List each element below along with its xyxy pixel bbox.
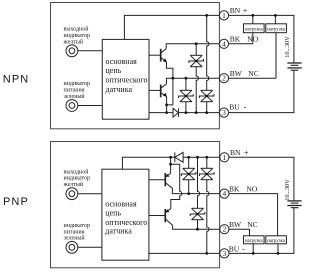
junction Z1 top on rail 4 [195,42,198,45]
terminal 6 [220,189,229,198]
junction Zb top on +rail [205,156,208,159]
svg-text:выходной: выходной [64,168,90,175]
wire Q2 emitter down [166,97,168,105]
svg-text:PNP: PNP [3,196,29,208]
wire Za bottom [188,180,190,194]
svg-text:1: 1 [222,11,226,20]
wire Q4 collector to rail 2 [173,225,220,229]
PNP sensor housing outline [51,142,220,268]
svg-text:нагрузка: нагрузка [245,28,264,33]
svg-text:нагрузка: нагрузка [267,28,286,33]
junction Z2 top on rail 2 [185,77,188,80]
svg-text:цепь: цепь [106,66,122,75]
wire Q3 base [149,179,165,181]
svg-text:цепь: цепь [105,209,121,218]
svg-text:зеленый: зеленый [64,93,86,100]
junction emitter bus on +rail [169,156,172,159]
wire load 3 to BU rail [252,244,254,254]
terminal 2 [219,74,228,83]
PNP transistor Q3 [165,173,172,188]
wire emitter bus to Q4 with hop over rail 4 [171,164,182,208]
svg-text:1: 1 [223,153,227,162]
wire load 2 to BW [275,33,277,78]
rail 3 from block [149,112,173,114]
label BU - PNP [229,244,245,253]
svg-text:нагрузка: нагрузка [245,239,264,244]
wire Za top [188,157,190,168]
wire Zb column with hops over rails 4 and 2 [207,180,209,254]
wire Q3 emitter [170,164,172,173]
wire Q1 base [149,54,161,56]
label BU - [229,103,247,112]
junction Z3 rail 3 [205,111,208,114]
svg-text:2: 2 [222,74,226,83]
zener Zb [200,168,215,179]
svg-text:датчика: датчика [106,85,133,94]
svg-text:NO: NO [247,184,258,193]
svg-text:BW: BW [229,220,242,229]
wire Q2 collector to rail 2 [167,78,173,84]
svg-text:+: + [243,7,248,16]
svg-text:индикатор: индикатор [64,33,91,39]
wire LED1 to block [78,50,103,52]
svg-text:желтый: желтый [63,38,84,45]
svg-text:основная: основная [106,57,138,66]
rail 2 to terminal 2 [173,77,220,79]
zener Z3 [199,90,214,101]
label BW NC [230,69,259,78]
battery B2 10...30V [287,201,301,208]
PNP power indicator label [64,223,91,242]
wire BK NO external [229,43,253,45]
wire block top to +rail [124,15,219,39]
wire LED4 to block [78,246,102,248]
svg-text:-: - [242,245,245,254]
junction Zc rail 2 [196,228,199,231]
battery B1 10...30V [287,63,301,70]
NPN power indicator label [64,81,91,100]
label BN + PNP [230,148,249,157]
label BN + [230,6,248,15]
svg-text:оптического: оптического [105,218,147,227]
svg-text:BU: BU [229,244,240,253]
wire block top to +rail PNP [122,157,174,169]
wire Q1 emitter jog down [167,62,173,78]
zener Z1 [189,55,204,66]
svg-text:3: 3 [222,108,226,117]
diode D1 in rail 3 [173,108,178,117]
wire Z2 bottom [185,102,187,113]
junction Za top on +rail [187,156,190,159]
wire load 1 to BK [252,33,254,44]
zener Zc [190,208,205,219]
svg-text:BW: BW [230,69,243,78]
label BK NO [230,35,259,44]
PNP transistor Q4 [165,209,172,226]
wire Q1 collector to rail 4 [166,44,219,49]
svg-text:оптического: оптического [106,76,148,85]
svg-text:основная: основная [105,199,137,208]
junction Z1 column rail 3 [195,111,198,114]
load resistor box 4 [266,236,287,244]
wire LED3 to block [78,193,102,195]
wire Q2 base [149,89,161,91]
load resistor box 1 [244,24,265,33]
svg-text:выходной: выходной [64,26,90,33]
svg-text:BU: BU [229,103,240,112]
svg-text:BN: BN [230,6,241,15]
terminal 1 [219,11,228,20]
wire Z3 column from +rail with hops [207,15,209,90]
NPN sensor housing outline [51,3,220,129]
label BK NO PNP [229,184,258,193]
svg-text:датчика: датчика [105,227,132,236]
wire Q4 base [149,215,165,217]
svg-text:NC: NC [248,69,258,78]
svg-text:питания: питания [64,229,85,235]
svg-text:3: 3 [223,249,227,258]
svg-text:нагрузка: нагрузка [267,239,286,244]
NPN transistor Q1 [161,49,167,63]
junction load 2 top [274,14,277,17]
NPN main sensor block U1 [102,39,149,119]
svg-text:индикатор: индикатор [64,223,91,229]
svg-text:10...30V: 10...30V [284,179,291,201]
wire BN+ external [229,15,294,63]
PNP main sensor block U2 [102,169,149,260]
svg-text:+: + [244,149,249,158]
NPN yellow LED indicator [66,45,78,57]
svg-text:-: - [244,103,247,112]
svg-text:NC: NC [247,220,257,229]
wire BK NO external PNP [229,194,278,236]
NPN transistor Q2 [161,84,167,97]
wire BW NC external [229,77,276,79]
svg-text:4: 4 [223,189,227,198]
terminal 4 [219,39,228,48]
load resistor box 3 [244,236,265,244]
wire battery to BU [229,70,294,112]
PNP green LED indicator [66,241,78,253]
svg-text:желтый: желтый [63,181,84,188]
NPN main block label [106,57,148,94]
zener Za [181,168,196,179]
rail 3 PNP [149,252,220,254]
PNP main block label [105,199,147,235]
junction Zc top on +rail [196,156,199,159]
junction Zb rail 3 [205,252,208,255]
svg-text:индикатор: индикатор [64,81,91,87]
svg-text:BK: BK [230,35,241,44]
zener Z2 [179,90,194,101]
terminal 8 [220,249,229,258]
wire LED2 to block [78,105,103,107]
wire to load 2 [274,15,276,23]
terminal 3 [219,108,228,117]
wire BN+ external PNP [229,157,294,201]
terminal 5 [220,153,229,162]
PNP output indicator label [63,168,91,188]
wire BW NC external PNP [229,229,250,236]
svg-text:4: 4 [222,39,226,48]
junction load 4 BU [277,252,280,255]
wire Zc column with hop over rail 4 [198,157,200,208]
svg-text:питания: питания [64,88,85,94]
svg-text:индикатор: индикатор [64,176,91,182]
junction load 1 top [251,14,254,17]
wire battery to BU rail PNP [229,208,294,254]
wire Z1 top [195,44,197,56]
wire Q3 collector to rail 4 [172,188,219,193]
wire Z1 bottom with hop over rail 2 [196,67,198,113]
junction Q1 emitter / rail 2 [172,77,175,80]
wire Z2 top [185,78,187,90]
junction Z2 rail 3 [185,111,188,114]
svg-text:зеленый: зеленый [64,235,86,242]
+rail diode to terminal 1 [183,156,220,158]
svg-text:NPN: NPN [3,74,30,86]
junction Za rail 4 [187,192,190,195]
svg-text:BN: BN [230,148,241,157]
node +rail to zener column [205,14,208,17]
wire load 4 to BU rail [277,244,279,254]
terminal 7 [220,225,229,234]
diode D2 in +rail [175,152,183,162]
junction load 3 BU [252,252,255,255]
wire Z3 bottom [206,102,208,113]
svg-text:BK: BK [229,184,240,193]
svg-text:10...30V: 10...30V [284,36,291,58]
wire Zb top [206,157,208,168]
NPN output indicator label [63,26,91,46]
PNP yellow LED indicator [66,188,78,200]
junction rail 3 left [165,111,168,114]
load resistor box 2 [266,24,287,33]
wire emitters to rail 3 [166,105,168,113]
junction emitter bus split [169,163,172,166]
svg-text:2: 2 [223,225,227,234]
label BW NC PNP [229,220,258,229]
junction emitters [165,104,168,107]
wire Zc bottom [197,220,199,230]
NPN green LED indicator [66,100,78,112]
wire emitter bus vertical [170,157,172,164]
wire emitter bus down [167,78,173,105]
wire to load 1 [252,15,254,23]
rail 3 diode to terminal 3 [178,112,219,114]
